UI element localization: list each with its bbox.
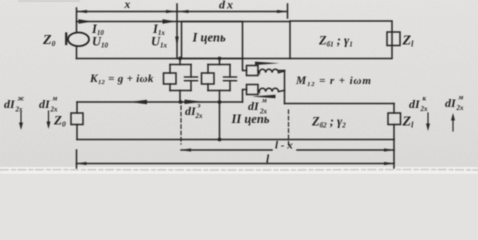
dimension tick right bottom xyxy=(393,140,395,169)
svg-text:Zб2 ; γ2: Zб2 ; γ2 xyxy=(311,115,346,130)
svg-text:2x: 2x xyxy=(420,105,429,113)
svg-text:м: м xyxy=(458,94,464,102)
dimension l tick left xyxy=(76,150,78,168)
voltage arrow U1x down xyxy=(175,37,179,47)
node dot pair1 bottom xyxy=(179,100,183,104)
svg-text:dI: dI xyxy=(409,97,421,111)
svg-text:2x: 2x xyxy=(259,108,268,116)
svg-text:dI: dI xyxy=(4,97,16,111)
pair 2 cap top lead xyxy=(229,65,231,78)
pair 1 bottom stub xyxy=(179,91,181,103)
circuit II left lower lead xyxy=(76,125,78,140)
svg-text:dx: dx xyxy=(219,0,235,12)
pair 2 bottom stub xyxy=(219,91,221,103)
svg-text:dI: dI xyxy=(445,96,457,110)
dashed boundary left xyxy=(180,106,182,144)
circuit II left lead xyxy=(76,102,78,113)
circuit II right upper lead xyxy=(393,104,395,114)
load box Zl top xyxy=(387,32,400,46)
generator left bar xyxy=(65,34,67,45)
svg-text:м: м xyxy=(52,95,58,103)
current arrow I10 xyxy=(79,19,93,24)
svg-text:dI: dI xyxy=(39,97,51,111)
current arrow lower M left xyxy=(252,95,276,98)
svg-text:м: м xyxy=(261,97,267,105)
generator ellipse xyxy=(68,33,89,47)
circuit I bottom wire xyxy=(77,58,291,60)
pair 1 bottom bus xyxy=(170,90,191,92)
pair 2 left lead lower xyxy=(207,84,209,91)
dimension x right arrowhead xyxy=(166,10,176,13)
resistor box g pair2 xyxy=(202,73,215,84)
node dot pair2 middle xyxy=(218,100,222,104)
circuit II bottom wire xyxy=(77,139,394,141)
load box Zl circuit II xyxy=(388,113,401,125)
box circuit I (I tsep) xyxy=(182,22,243,59)
M branch upper left lead xyxy=(243,59,247,71)
shorting vertical wire xyxy=(219,102,221,140)
svg-text:2x: 2x xyxy=(50,106,59,114)
pair 1 cap top lead xyxy=(190,65,192,78)
circuit II top wire right segment xyxy=(285,103,395,105)
resistor box g pair1 xyxy=(164,73,177,84)
pair 2 left lead upper xyxy=(207,65,209,74)
resistor box r upper xyxy=(247,66,259,76)
dimension l line xyxy=(77,163,395,165)
pair 2 top bus xyxy=(208,64,230,66)
box Zb1 gamma1 xyxy=(290,21,392,59)
dimension dx left arrowhead xyxy=(179,10,189,13)
current arrow dI2x-e xyxy=(185,100,204,104)
svg-text:x: x xyxy=(124,0,131,11)
dimension dx right arrowhead xyxy=(277,10,287,13)
dimension l-x line left part xyxy=(181,149,272,151)
node dot pair1 top xyxy=(178,57,182,61)
pair 1 left lead upper xyxy=(169,65,171,74)
inductor coil upper xyxy=(258,69,285,72)
bottom edge scan artifact xyxy=(0,168,478,171)
capacitor k pair1 plate top xyxy=(185,76,198,78)
pair 1 cap bottom lead xyxy=(190,81,192,91)
svg-text:2x: 2x xyxy=(456,104,465,112)
circuit I top wire xyxy=(77,21,291,23)
load box Z0 circuit II xyxy=(71,113,83,125)
K12 pair 2 top stub xyxy=(219,59,221,65)
inductor coil lower xyxy=(258,88,285,91)
pair 2 bottom bus xyxy=(208,90,230,92)
svg-text:к: к xyxy=(423,95,427,103)
wire U1x vertical xyxy=(176,4,178,59)
dimension l left arrowhead xyxy=(77,162,87,165)
svg-text:I цепь: I цепь xyxy=(192,31,226,45)
node dot pair2 bottom xyxy=(218,138,222,142)
svg-text:ж: ж xyxy=(18,95,25,103)
resistor box r lower xyxy=(247,85,259,95)
dimension l right arrowhead xyxy=(384,162,394,165)
circuit II top wire left segment xyxy=(77,101,243,103)
M upper wire to right xyxy=(279,70,285,72)
svg-text:Zб1 ; γ1: Zб1 ; γ1 xyxy=(318,34,353,49)
dimension dx line xyxy=(178,11,287,13)
svg-text:2x: 2x xyxy=(15,106,24,114)
svg-text:2x: 2x xyxy=(195,112,204,120)
capacitor k pair2 plate top xyxy=(224,76,237,78)
dashed boundary right xyxy=(288,110,290,147)
node dot pair2 top xyxy=(218,57,222,61)
arrow up dI2x-m right xyxy=(452,118,454,131)
dimension x line xyxy=(77,11,176,13)
current arrow upper M right xyxy=(255,62,280,65)
source top lead / dimension tick xyxy=(76,8,78,33)
dimension l-x right arrowhead xyxy=(384,148,394,151)
arrow down dI2x-zh xyxy=(20,112,22,125)
svg-text:l - x: l - x xyxy=(275,140,293,152)
K12 pair 1 top stub xyxy=(179,59,181,65)
arrow down dI2x-k right xyxy=(427,113,429,126)
pair 1 top bus xyxy=(170,64,191,66)
source bottom lead xyxy=(76,46,78,59)
current arrow circuit II left xyxy=(130,100,148,104)
circuit II right lower lead xyxy=(393,125,395,140)
dimension x left arrowhead xyxy=(77,10,87,13)
current arrow I1x xyxy=(163,19,177,24)
M branches common right vertical xyxy=(284,71,286,104)
svg-text:dI: dI xyxy=(248,99,260,113)
capacitor k pair2 plate bottom xyxy=(224,80,237,82)
arrow down dI2x-m left xyxy=(48,111,50,124)
svg-text:M12 = r + iωm: M12 = r + iωm xyxy=(295,75,372,88)
svg-text:э: э xyxy=(197,102,201,110)
M branch lower left lead xyxy=(243,90,247,103)
pair 1 left lead lower xyxy=(169,84,171,91)
pair 2 cap bottom lead xyxy=(229,81,231,91)
page margin white band xyxy=(0,167,478,174)
dimension l-x line right part xyxy=(297,149,394,151)
dimension l-x left arrowhead xyxy=(181,148,191,151)
top edge scan artifact xyxy=(18,0,80,2)
capacitor k pair1 plate bottom xyxy=(185,80,198,82)
dimension tick dx right xyxy=(287,4,289,18)
